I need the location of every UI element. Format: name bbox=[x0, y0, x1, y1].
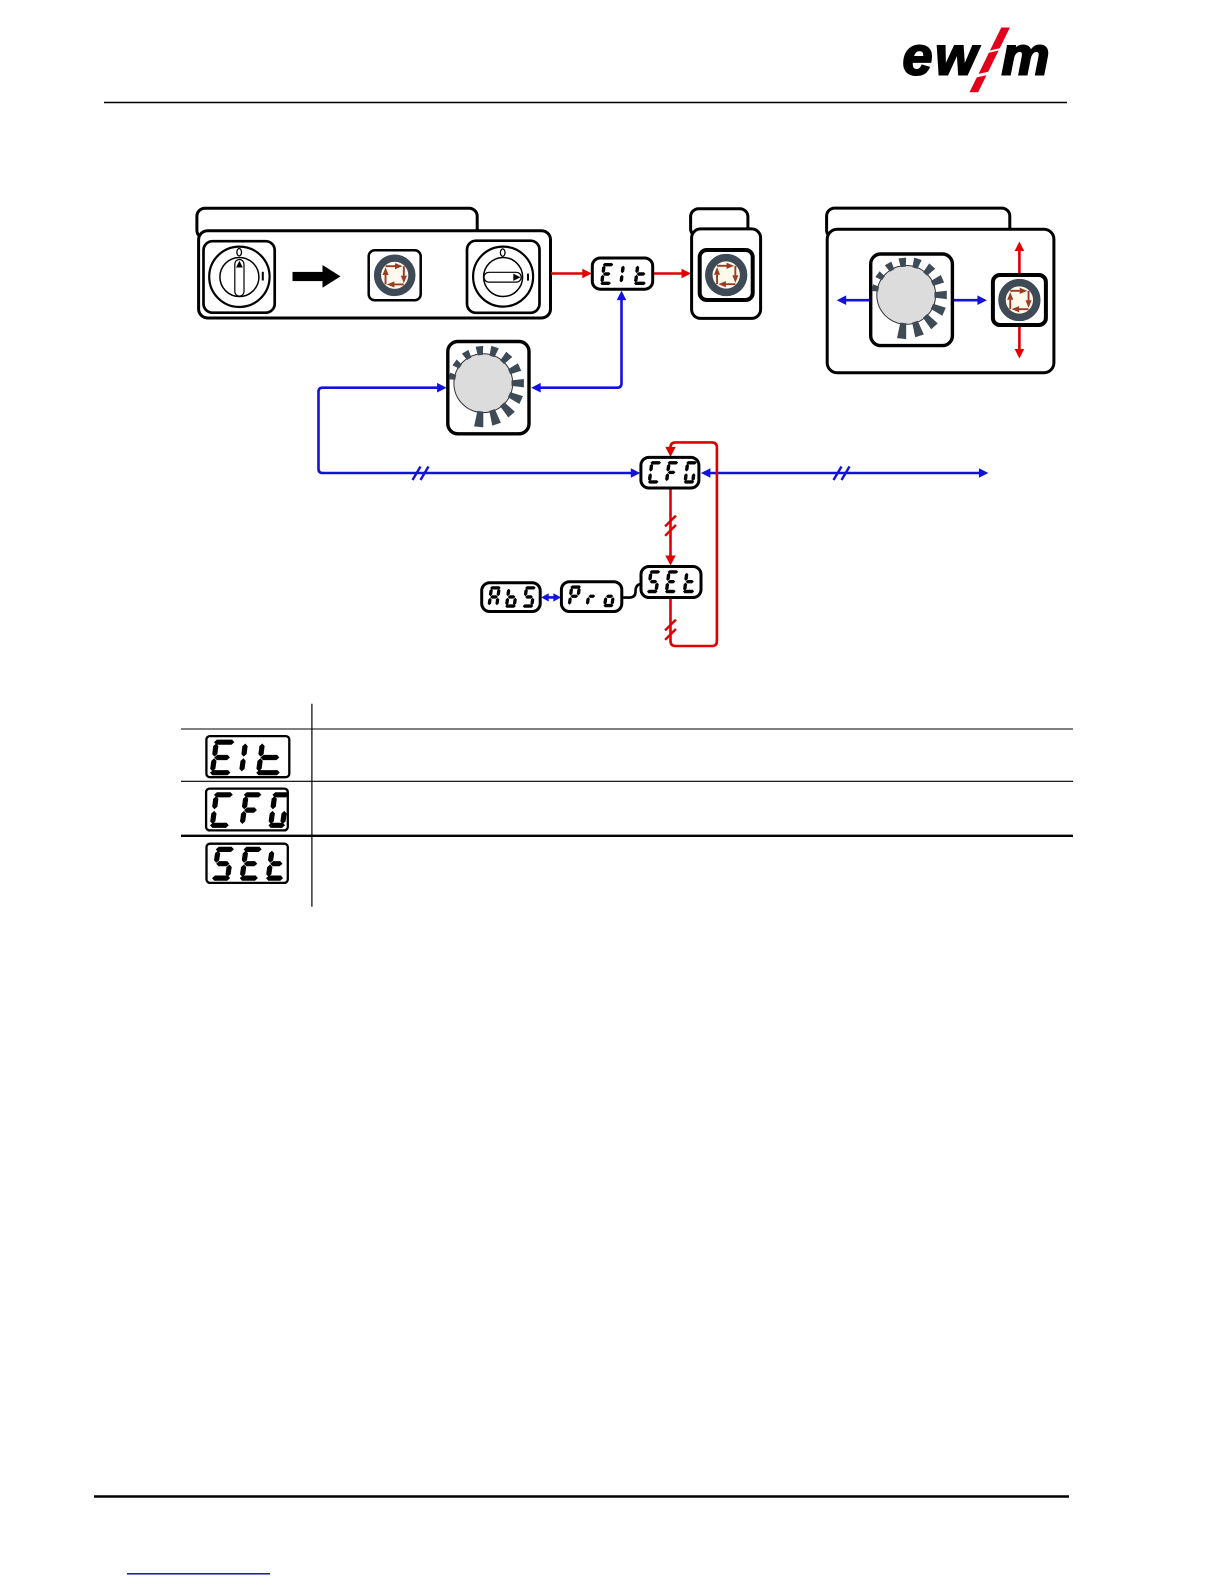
table row rule 1 bbox=[181, 728, 1073, 730]
wire red Eit to button box bbox=[654, 269, 691, 279]
footer rule bbox=[94, 1495, 1069, 1498]
table display EIt bbox=[206, 736, 289, 777]
knob K1 bbox=[448, 342, 529, 434]
display Eit bbox=[592, 258, 652, 289]
wire blue right of knob bbox=[953, 295, 987, 305]
wire red down arrow bbox=[1015, 325, 1025, 359]
header rule bbox=[104, 102, 1067, 104]
black arrow bbox=[293, 265, 341, 288]
wire red up arrow bbox=[1015, 242, 1025, 277]
table column rule bbox=[311, 704, 313, 907]
table row rule 2 bbox=[181, 780, 1073, 782]
button U3 (cycle) bbox=[993, 275, 1046, 325]
display CFG bbox=[641, 457, 699, 488]
svg-text:ew: ew bbox=[903, 27, 981, 87]
connector Pro to SEt bbox=[622, 584, 642, 598]
wire blue knob to CFG bbox=[319, 383, 641, 480]
right panel body bbox=[827, 229, 1054, 372]
table display SEt bbox=[207, 844, 288, 883]
left panel tab bbox=[197, 208, 477, 238]
button U2 (cycle) bbox=[700, 250, 753, 300]
button box tab bbox=[691, 209, 748, 237]
wire red panel to Eit bbox=[551, 269, 592, 279]
right panel tab bbox=[827, 208, 1010, 238]
svg-text:m: m bbox=[1002, 27, 1050, 87]
table row rule 3 bbox=[181, 835, 1073, 837]
wire blue CFG to right bbox=[701, 467, 989, 481]
wire blue left of knob bbox=[837, 295, 870, 305]
knob K2 bbox=[871, 254, 953, 346]
table display CFG bbox=[206, 789, 289, 831]
wire blue knob to Eit bbox=[531, 291, 626, 393]
button U1 (cycle) bbox=[369, 250, 421, 300]
wire red menu loop bbox=[665, 442, 717, 646]
footer link underline bbox=[127, 1573, 270, 1575]
EWM logo bbox=[903, 27, 1050, 87]
display SEt bbox=[641, 567, 701, 598]
left panel body bbox=[199, 231, 551, 318]
rotary switch S2 bbox=[467, 241, 540, 313]
display AbS bbox=[482, 583, 541, 612]
display Pro bbox=[561, 582, 621, 612]
button box body bbox=[692, 229, 761, 319]
wire blue AbS Pro bbox=[541, 593, 561, 601]
mains switch S1 bbox=[204, 241, 275, 313]
wire red CFG to SEt bbox=[665, 487, 676, 565]
